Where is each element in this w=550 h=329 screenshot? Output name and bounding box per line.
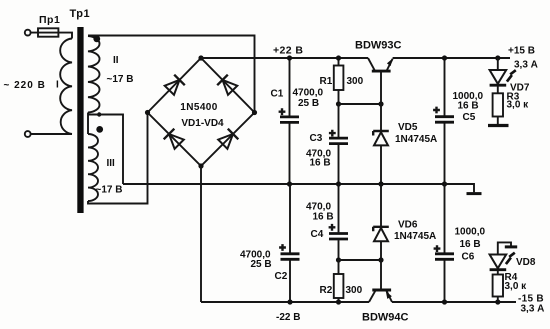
transistor Q1 BDW93C xyxy=(368,58,393,104)
zener diode VD5 xyxy=(373,104,389,184)
svg-text:C2: C2 xyxy=(275,271,288,282)
svg-text:1N5400: 1N5400 xyxy=(180,102,217,113)
svg-text:C6: C6 xyxy=(462,252,475,263)
node VD7 top xyxy=(495,55,500,60)
svg-text:~17 В: ~17 В xyxy=(96,185,123,196)
secondary winding III xyxy=(88,134,98,201)
svg-text:R2: R2 xyxy=(320,285,333,296)
node bridge minus xyxy=(198,163,203,168)
wire 0V rail xyxy=(123,183,445,185)
resistor R1 xyxy=(334,58,344,104)
wire node A to base node top xyxy=(339,103,382,105)
capacitor C5 xyxy=(433,58,454,184)
fuse Pr1 xyxy=(38,28,58,36)
node C1 top xyxy=(287,55,292,60)
svg-text:~17 В: ~17 В xyxy=(107,74,134,85)
diode VD1 upper-left xyxy=(165,75,185,95)
wire winding I bottom to terminal xyxy=(31,133,72,135)
wire center tap to 0V rail xyxy=(88,115,123,185)
node C5 top xyxy=(442,55,447,60)
node bridge plus xyxy=(198,55,203,60)
svg-text:VD5: VD5 xyxy=(398,122,418,133)
node R4 bottom xyxy=(495,299,500,304)
svg-text:3,3 А: 3,3 А xyxy=(521,304,545,315)
wire -15V output line xyxy=(392,301,516,303)
node C3 bottom xyxy=(336,181,341,186)
node A base divider top xyxy=(336,101,341,106)
wire +15V output line xyxy=(393,57,510,59)
capacitor C4 xyxy=(329,184,348,260)
diode VD3 lower-left xyxy=(164,129,184,149)
wire +22V rail xyxy=(201,57,368,59)
svg-text:25 В: 25 В xyxy=(251,259,272,270)
node VD5 anode rail xyxy=(378,181,383,186)
transformer Tr1 core xyxy=(77,27,83,213)
svg-text:3,3 А: 3,3 А xyxy=(514,60,538,71)
primary winding I xyxy=(60,39,72,135)
svg-text:25 В: 25 В xyxy=(298,98,319,109)
LED VD8 xyxy=(490,255,507,275)
secondary winding II xyxy=(88,36,100,113)
svg-text:+15 В: +15 В xyxy=(508,46,535,57)
svg-text:~ 220 В: ~ 220 В xyxy=(4,80,46,91)
svg-text:C4: C4 xyxy=(311,229,324,240)
capacitor C2 xyxy=(279,184,299,302)
svg-text:III: III xyxy=(107,158,116,169)
wire -22V rail xyxy=(201,301,369,303)
node C2 bottom xyxy=(287,299,292,304)
svg-text:16 В: 16 В xyxy=(310,158,331,169)
resistor R4 xyxy=(493,275,503,303)
svg-text:1000,0: 1000,0 xyxy=(455,227,486,238)
svg-text:+22 В: +22 В xyxy=(273,45,303,57)
node C1 bottom xyxy=(287,181,292,186)
svg-text:16 В: 16 В xyxy=(460,239,481,250)
node B divider bottom xyxy=(336,257,341,262)
svg-text:16 В: 16 В xyxy=(313,212,334,223)
zener diode VD6 xyxy=(373,184,389,260)
wire winding III bottom to bridge left AC node xyxy=(88,113,148,204)
svg-text:-22 В: -22 В xyxy=(276,312,300,323)
ground xyxy=(445,184,482,194)
svg-text:4700,0: 4700,0 xyxy=(293,88,324,99)
svg-text:BDW94C: BDW94C xyxy=(362,312,409,324)
node C5 bottom 0V xyxy=(442,181,447,186)
terminal mains top xyxy=(25,30,31,36)
node C6 bottom xyxy=(442,299,447,304)
LED VD7 emission arrows xyxy=(507,70,516,81)
node R1 top xyxy=(336,55,341,60)
transistor Q2 BDW94C xyxy=(369,260,392,302)
LED VD7 xyxy=(490,58,507,93)
capacitor C6 xyxy=(434,184,454,302)
svg-text:VD8: VD8 xyxy=(516,257,536,268)
LED VD8 emission arrows xyxy=(506,253,515,264)
wire node B to Q2 base node xyxy=(339,259,382,261)
polarity dot winding II xyxy=(93,36,100,43)
polarity dot winding III xyxy=(96,126,103,133)
svg-text:300: 300 xyxy=(346,285,363,296)
svg-text:C3: C3 xyxy=(310,133,323,144)
svg-text:1N4745A: 1N4745A xyxy=(394,231,436,242)
node Q2 base xyxy=(378,257,383,262)
resistor R3 xyxy=(493,93,503,124)
svg-text:C5: C5 xyxy=(463,112,476,123)
svg-text:1N4745A: 1N4745A xyxy=(395,134,437,145)
bridge VD1-VD4 diamond xyxy=(148,58,255,166)
capacitor C1 xyxy=(279,58,299,184)
resistor R2 xyxy=(334,260,344,302)
svg-text:I: I xyxy=(56,80,59,91)
capacitor C3 xyxy=(329,104,348,184)
wire winding II top to bridge right AC node xyxy=(88,36,255,113)
diode VD4 lower-right xyxy=(218,129,238,149)
svg-text:II: II xyxy=(113,55,119,66)
diode VD2 upper-right xyxy=(217,75,237,95)
node R2 bottom xyxy=(336,299,341,304)
node bridge left AC xyxy=(145,110,150,115)
svg-text:3,0 к: 3,0 к xyxy=(507,100,530,111)
svg-text:VD1-VD4: VD1-VD4 xyxy=(181,118,224,129)
ground VD8 return xyxy=(498,242,517,254)
svg-text:BDW93C: BDW93C xyxy=(355,40,402,52)
svg-text:300: 300 xyxy=(347,76,364,87)
terminal mains bottom xyxy=(25,131,31,137)
svg-text:R1: R1 xyxy=(320,76,333,87)
wire mains top to winding I xyxy=(31,33,72,39)
svg-text:VD6: VD6 xyxy=(398,220,418,231)
svg-text:Пр1: Пр1 xyxy=(39,14,60,26)
wire winding II-III junction xyxy=(87,113,89,135)
svg-text:16 В: 16 В xyxy=(458,101,479,112)
wire bridge minus to -22V rail xyxy=(200,166,202,302)
node Q1 base xyxy=(378,101,383,106)
svg-text:C1: C1 xyxy=(271,89,284,100)
svg-text:Тр1: Тр1 xyxy=(70,8,91,20)
node bridge right AC xyxy=(252,110,257,115)
svg-text:3,0 к: 3,0 к xyxy=(505,281,528,292)
ground R3 return xyxy=(488,124,509,127)
junction center tap xyxy=(97,112,101,116)
